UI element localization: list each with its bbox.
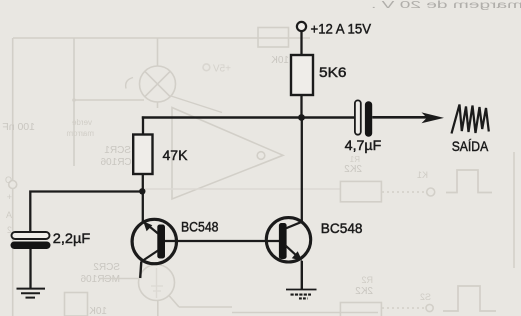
svg-text:2K2: 2K2 <box>355 286 373 297</box>
svg-text:+12 A 15V: +12 A 15V <box>311 21 372 37</box>
wire Q1 collector down <box>140 262 141 279</box>
svg-text:MCR106: MCR106 <box>80 274 120 285</box>
wire output node to Q2 collector <box>301 118 303 222</box>
svg-text:A: A <box>6 210 12 220</box>
node bleed S2 <box>426 304 433 311</box>
wire capacitor to arrow <box>372 116 428 119</box>
wire terminal to R1 <box>300 31 302 55</box>
resistor bleed box top <box>258 28 289 48</box>
capacitor C2 4.7uF plate right <box>365 101 372 137</box>
svg-text:O: O <box>5 175 12 185</box>
svg-text:2,2µF: 2,2µF <box>53 231 91 247</box>
transistor Q1 BC548 <box>132 219 176 263</box>
wire Q2 emitter to ground <box>301 261 303 290</box>
wire C1 to ground <box>29 249 31 288</box>
svg-text:margem de 20 V .: margem de 20 V . <box>371 0 521 11</box>
node bleed K1 <box>427 188 435 196</box>
svg-text:4,7µF: 4,7µF <box>345 138 382 153</box>
svg-text:BC548: BC548 <box>181 220 219 236</box>
sawtooth waveform symbol <box>452 105 489 134</box>
resistor 47K <box>133 135 152 175</box>
SCR bleed circle below Q1 <box>139 265 175 301</box>
arrow output <box>422 112 445 123</box>
ground Q2 <box>286 290 317 299</box>
svg-text:+: + <box>7 192 12 202</box>
wire bleed right edge <box>513 152 515 268</box>
svg-text:SAÍDA: SAÍDA <box>452 139 489 154</box>
capacitor C2 4.7uF plate left <box>355 100 361 134</box>
wire base Q1 to Q2 <box>165 240 279 242</box>
node faint +5V terminal <box>203 64 210 71</box>
svg-text:47K: 47K <box>163 148 189 164</box>
wire faint frame top <box>13 37 310 39</box>
node junction base <box>139 188 145 194</box>
svg-text:SCR1: SCR1 <box>104 145 131 156</box>
node +12V supply terminal <box>297 22 306 31</box>
transistor Q2 BC548 <box>266 218 310 262</box>
svg-text:R1: R1 <box>349 155 360 164</box>
pulse waveform bleed top <box>446 170 492 193</box>
svg-text:SCR2: SCR2 <box>93 262 120 273</box>
resistor 5K6 <box>291 55 313 95</box>
wire bleed mid horizontal <box>145 188 340 190</box>
wire faint frame left <box>12 38 14 316</box>
resistor bleed box bottom-right <box>340 303 381 316</box>
ground C1 <box>17 289 46 298</box>
svg-text:marrom: marrom <box>66 129 94 138</box>
svg-text:R2: R2 <box>361 275 373 285</box>
node bleed junction <box>72 98 76 102</box>
svg-text:BC548: BC548 <box>321 221 363 237</box>
svg-text:+5V: +5V <box>213 64 231 75</box>
svg-text:2K2: 2K2 <box>344 164 362 175</box>
svg-text:10K: 10K <box>271 55 289 66</box>
wire R2 to base node <box>142 174 144 222</box>
resistor bleed box right-mid <box>340 181 381 201</box>
node junction output <box>298 114 305 121</box>
svg-text:10K: 10K <box>89 306 107 316</box>
wire base node to capacitor C1 <box>30 192 142 233</box>
svg-text:S2: S2 <box>420 292 431 302</box>
svg-text:100 nF: 100 nF <box>2 121 35 133</box>
op-amp bleed triangle <box>172 108 283 200</box>
wire output corner to R2 <box>142 116 144 134</box>
node faint terminal left <box>9 181 17 189</box>
wire output horizontal <box>142 116 355 119</box>
capacitor C1 2.2uF plate bottom <box>11 242 51 250</box>
svg-text:K1: K1 <box>417 170 428 180</box>
pulse waveform bleed bottom <box>443 286 496 311</box>
wire faint vertical x74 <box>74 38 144 166</box>
svg-text:verde: verde <box>71 118 92 127</box>
svg-text:5K6: 5K6 <box>319 65 347 81</box>
lamp bleed symbol <box>126 38 222 113</box>
resistor bleed box bottom-left <box>65 293 88 316</box>
capacitor C1 2.2uF plate top <box>12 232 50 239</box>
wire R1 to output node <box>300 95 302 118</box>
